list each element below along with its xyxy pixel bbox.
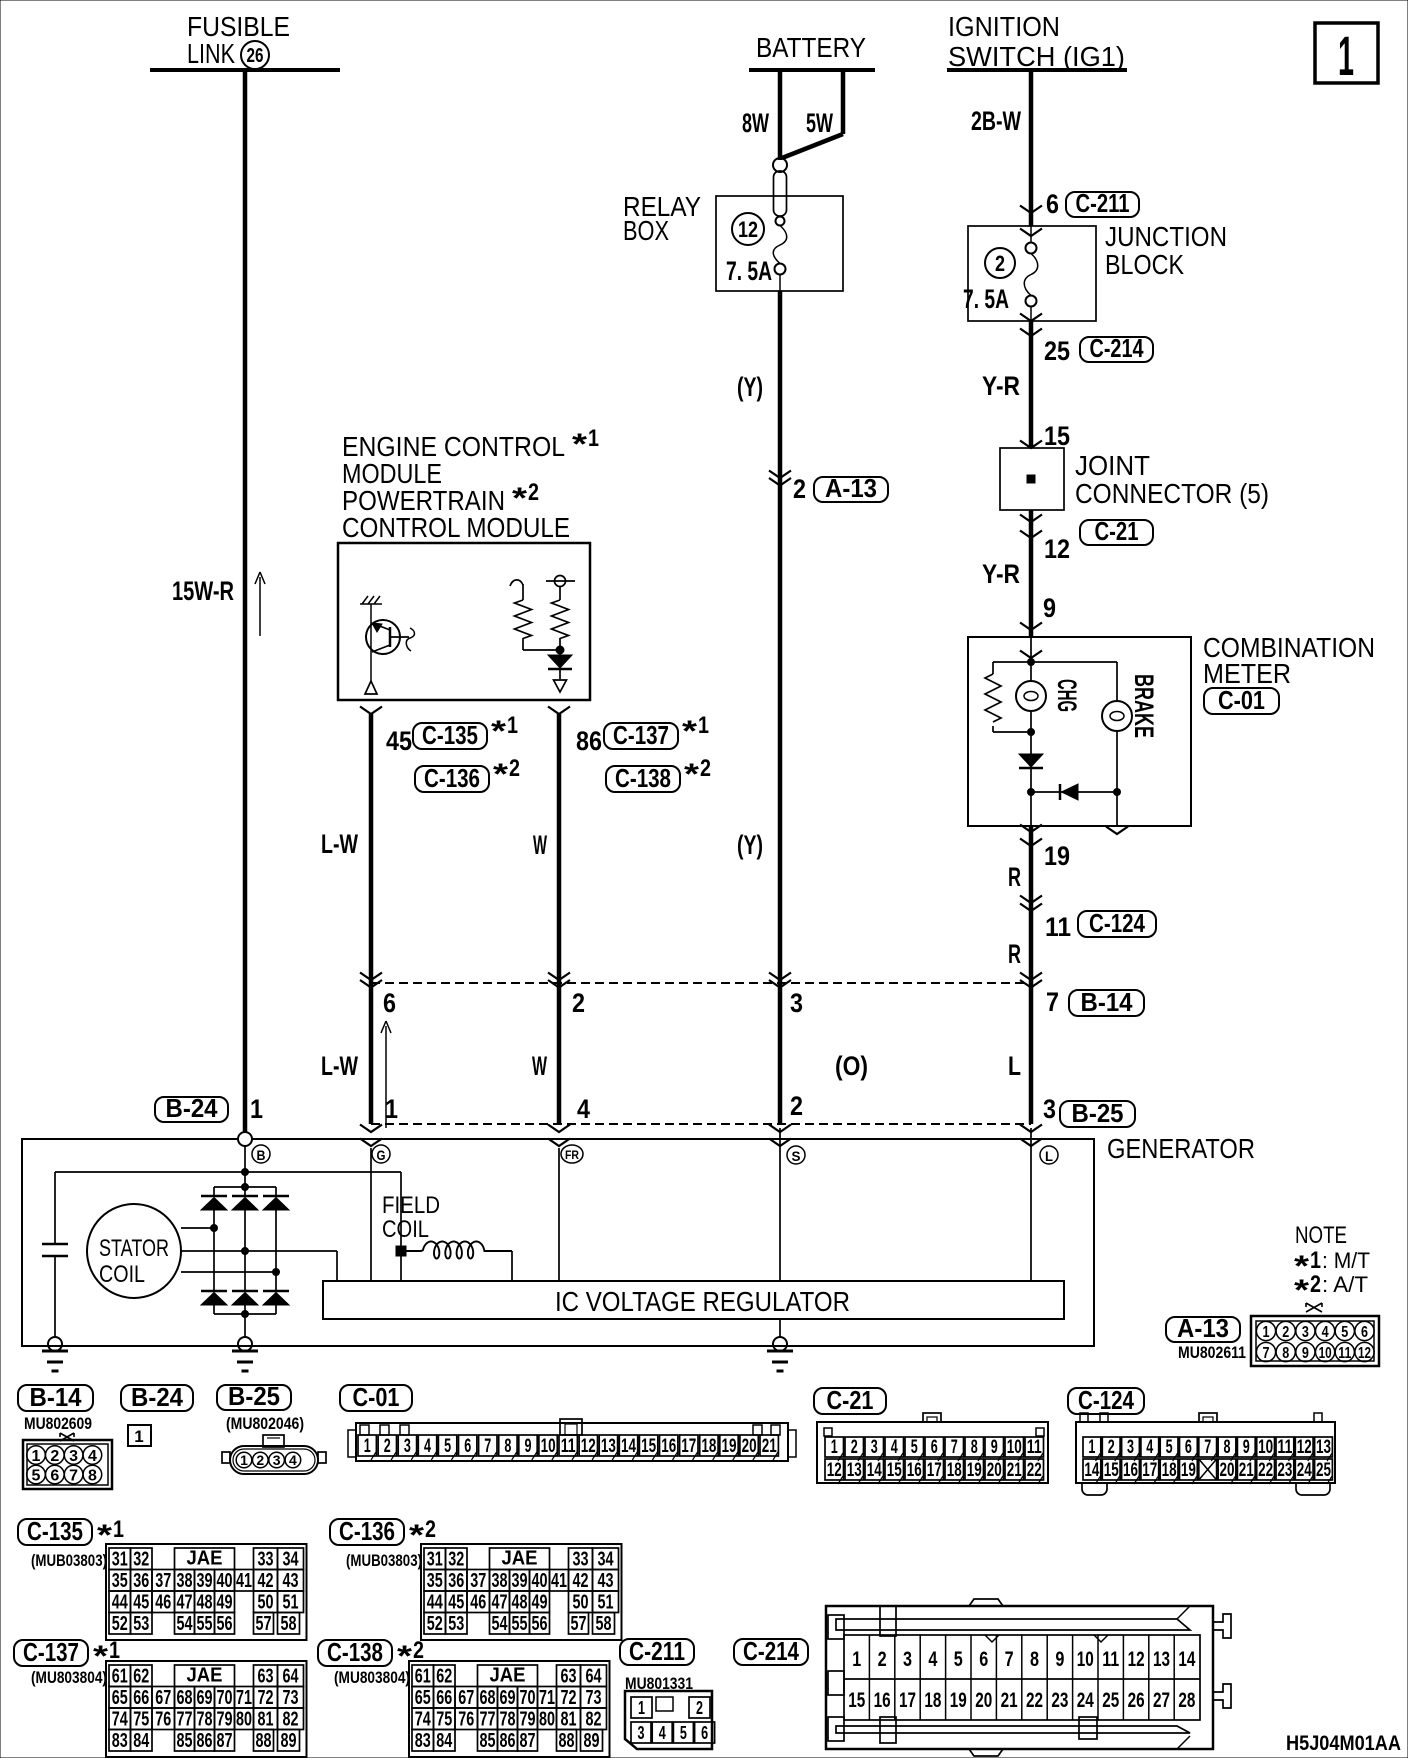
svg-text:6: 6 bbox=[931, 1437, 938, 1458]
svg-text:S: S bbox=[792, 1148, 801, 1164]
node meter lower junction bbox=[1028, 789, 1035, 796]
svg-text:4: 4 bbox=[1146, 1437, 1153, 1458]
svg-text:9: 9 bbox=[525, 1436, 532, 1457]
svg-text:B-25: B-25 bbox=[228, 1381, 280, 1411]
svg-text:39: 39 bbox=[512, 1570, 528, 1592]
svg-text:86: 86 bbox=[500, 1730, 516, 1752]
connector C-124 label bbox=[1068, 1388, 1144, 1414]
svg-text:B-14: B-14 bbox=[30, 1382, 82, 1412]
svg-text:70: 70 bbox=[217, 1687, 233, 1709]
svg-text:JAE: JAE bbox=[187, 1665, 223, 1687]
svg-text:5: 5 bbox=[1341, 1324, 1348, 1341]
svg-text:C-124: C-124 bbox=[1078, 1385, 1134, 1415]
svg-text:6: 6 bbox=[464, 1436, 471, 1457]
svg-text:C-138: C-138 bbox=[615, 763, 671, 793]
svg-text:3: 3 bbox=[1043, 1094, 1056, 1124]
svg-text:64: 64 bbox=[283, 1666, 300, 1688]
wire FR to regulator bbox=[558, 1148, 560, 1281]
svg-text:41: 41 bbox=[551, 1570, 567, 1592]
svg-text:33: 33 bbox=[573, 1549, 589, 1571]
svg-text:57: 57 bbox=[571, 1613, 587, 1635]
ECM pin 45 exit bbox=[360, 707, 382, 715]
connector B-25 pin diagram bbox=[263, 1435, 284, 1447]
relay box outline bbox=[716, 196, 843, 291]
svg-text:14: 14 bbox=[621, 1436, 636, 1457]
wire 2B-W bbox=[1029, 70, 1034, 226]
terminal L entry bbox=[1020, 1125, 1042, 1133]
svg-text:11: 11 bbox=[1027, 1437, 1042, 1458]
svg-text:21: 21 bbox=[1239, 1460, 1254, 1481]
svg-text:8: 8 bbox=[1282, 1345, 1289, 1362]
connector C-138 label bbox=[318, 1640, 392, 1666]
svg-text:87: 87 bbox=[520, 1730, 536, 1752]
ECM box outline bbox=[338, 543, 590, 700]
svg-text:7. 5A: 7. 5A bbox=[963, 284, 1009, 314]
svg-text:17: 17 bbox=[899, 1689, 916, 1712]
svg-text:12: 12 bbox=[738, 217, 758, 242]
svg-text:(Y): (Y) bbox=[737, 830, 763, 860]
svg-text:L-W: L-W bbox=[321, 1051, 358, 1081]
svg-text:10: 10 bbox=[1258, 1437, 1273, 1458]
connector C-136 pin diagram bbox=[421, 1544, 622, 1640]
svg-text:3: 3 bbox=[790, 988, 803, 1018]
svg-text:L: L bbox=[1008, 1051, 1021, 1081]
svg-text:22: 22 bbox=[1027, 1460, 1042, 1481]
svg-text:73: 73 bbox=[283, 1687, 299, 1709]
svg-text:10: 10 bbox=[1007, 1437, 1022, 1458]
svg-text:36: 36 bbox=[133, 1570, 149, 1592]
svg-text:3: 3 bbox=[69, 1448, 78, 1465]
svg-text:85: 85 bbox=[177, 1730, 193, 1752]
svg-text:11: 11 bbox=[561, 1436, 576, 1457]
terminal FR entry bbox=[548, 1125, 570, 1133]
svg-text:: A/T: : A/T bbox=[1322, 1272, 1368, 1297]
diode bridge top-mid bbox=[244, 1187, 246, 1196]
stator phase U bbox=[181, 1227, 214, 1229]
svg-text:C-124: C-124 bbox=[1089, 908, 1145, 938]
connector B-24 label (generator B) bbox=[155, 1097, 228, 1122]
stator coil bbox=[87, 1204, 181, 1298]
svg-text:75: 75 bbox=[436, 1709, 452, 1731]
svg-text:50: 50 bbox=[573, 1592, 589, 1614]
fuse 12 (7.5A) in relay box bbox=[732, 213, 764, 245]
connector 11 (C-124) bbox=[1020, 896, 1042, 904]
stator phase W bbox=[181, 1271, 276, 1273]
svg-text:2: 2 bbox=[878, 1648, 887, 1671]
svg-text:85: 85 bbox=[480, 1730, 496, 1752]
svg-text:6: 6 bbox=[701, 1723, 708, 1743]
svg-text:3: 3 bbox=[273, 1452, 281, 1468]
svg-text:(O): (O) bbox=[835, 1051, 868, 1081]
svg-text:C-137: C-137 bbox=[23, 1637, 79, 1667]
svg-text:22: 22 bbox=[1026, 1689, 1043, 1712]
svg-text:46: 46 bbox=[155, 1592, 171, 1614]
svg-text:3: 3 bbox=[638, 1723, 645, 1743]
svg-text:67: 67 bbox=[458, 1687, 474, 1709]
svg-text:89: 89 bbox=[281, 1730, 297, 1752]
diode bridge bottom-right bbox=[275, 1272, 277, 1291]
svg-text:11: 11 bbox=[1102, 1648, 1119, 1671]
svg-text:7: 7 bbox=[69, 1468, 78, 1485]
svg-text:10: 10 bbox=[541, 1436, 556, 1457]
direction arrow up (15W-R) bbox=[259, 577, 261, 636]
svg-text:FR: FR bbox=[565, 1148, 579, 1162]
svg-text:23: 23 bbox=[1051, 1689, 1068, 1712]
svg-text:1: 1 bbox=[852, 1648, 861, 1671]
svg-text:*: * bbox=[491, 715, 506, 748]
svg-text:42: 42 bbox=[573, 1570, 589, 1592]
meter exit chevrons bbox=[1020, 825, 1042, 833]
svg-text:44: 44 bbox=[427, 1592, 444, 1614]
svg-text:11: 11 bbox=[1277, 1437, 1292, 1458]
svg-text:COIL: COIL bbox=[382, 1216, 429, 1243]
svg-text:19: 19 bbox=[1044, 841, 1070, 871]
svg-text:54: 54 bbox=[177, 1613, 194, 1635]
svg-text:43: 43 bbox=[598, 1570, 614, 1592]
connector C-01 pin diagram bbox=[356, 1423, 788, 1461]
svg-text:C-21: C-21 bbox=[827, 1385, 874, 1415]
svg-text:C-135: C-135 bbox=[27, 1516, 83, 1546]
svg-text:5W: 5W bbox=[806, 108, 833, 138]
svg-text:12: 12 bbox=[581, 1436, 596, 1457]
svg-text:67: 67 bbox=[155, 1687, 171, 1709]
svg-text:79: 79 bbox=[217, 1709, 233, 1731]
svg-text:2: 2 bbox=[995, 251, 1005, 276]
svg-text:13: 13 bbox=[1153, 1648, 1170, 1671]
diode D3 (in ECM) bbox=[559, 650, 561, 655]
svg-text:1: 1 bbox=[831, 1437, 838, 1458]
svg-text:1: 1 bbox=[1338, 24, 1354, 87]
svg-text:4: 4 bbox=[1322, 1324, 1329, 1341]
combination meter outline bbox=[968, 637, 1191, 826]
svg-text:1: 1 bbox=[1310, 1247, 1321, 1274]
svg-text:75: 75 bbox=[133, 1709, 149, 1731]
svg-text:17: 17 bbox=[1142, 1460, 1157, 1481]
connector B-25 label bbox=[217, 1385, 291, 1410]
svg-text:53: 53 bbox=[448, 1613, 464, 1635]
svg-text:17: 17 bbox=[927, 1460, 942, 1481]
svg-text:12: 12 bbox=[1297, 1437, 1312, 1458]
svg-text:27: 27 bbox=[1153, 1689, 1170, 1712]
wire L (C-124 to generator L) bbox=[1029, 983, 1034, 1124]
svg-text:12: 12 bbox=[827, 1460, 842, 1481]
svg-text:2: 2 bbox=[696, 1698, 703, 1718]
svg-text:28: 28 bbox=[1178, 1689, 1195, 1712]
fusible link source bar bbox=[150, 68, 340, 72]
svg-text:B-24: B-24 bbox=[166, 1093, 218, 1123]
svg-text:MU802611: MU802611 bbox=[1178, 1343, 1246, 1362]
svg-text:1: 1 bbox=[250, 1094, 263, 1124]
svg-text:11: 11 bbox=[1338, 1345, 1351, 1362]
svg-text:45: 45 bbox=[386, 726, 412, 756]
svg-text:5: 5 bbox=[1166, 1437, 1173, 1458]
svg-text:B: B bbox=[257, 1147, 266, 1163]
svg-text:BRAKE: BRAKE bbox=[1129, 674, 1159, 738]
svg-text:1: 1 bbox=[240, 1452, 248, 1468]
connector B-24 label bbox=[121, 1385, 193, 1411]
svg-text:53: 53 bbox=[133, 1613, 149, 1635]
terminal S entry bbox=[769, 1125, 791, 1133]
svg-text:55: 55 bbox=[197, 1613, 213, 1635]
connector C-21 label bbox=[814, 1388, 886, 1414]
svg-text:BATTERY: BATTERY bbox=[756, 32, 866, 63]
svg-text:44: 44 bbox=[112, 1592, 129, 1614]
svg-text:2: 2 bbox=[528, 479, 539, 506]
svg-text:15: 15 bbox=[1044, 421, 1070, 451]
svg-text:*: * bbox=[409, 1519, 424, 1552]
svg-text:*: * bbox=[682, 715, 697, 748]
svg-text:(MU802046): (MU802046) bbox=[226, 1414, 304, 1433]
svg-text:7: 7 bbox=[1046, 987, 1059, 1017]
svg-text:16: 16 bbox=[1123, 1460, 1138, 1481]
svg-text:L-W: L-W bbox=[321, 829, 358, 859]
svg-text:R: R bbox=[1008, 862, 1021, 892]
svg-text:H5J04M01AA: H5J04M01AA bbox=[1286, 1732, 1401, 1755]
svg-text:JUNCTION: JUNCTION bbox=[1105, 221, 1227, 252]
svg-text:15: 15 bbox=[641, 1436, 656, 1457]
svg-text:1: 1 bbox=[134, 1427, 143, 1446]
svg-text:15: 15 bbox=[1104, 1460, 1119, 1481]
svg-text:55: 55 bbox=[512, 1613, 528, 1635]
svg-text:25: 25 bbox=[1044, 336, 1070, 366]
svg-text:FIELD: FIELD bbox=[382, 1192, 440, 1219]
svg-text:6: 6 bbox=[50, 1468, 59, 1485]
svg-text:G: G bbox=[377, 1147, 386, 1163]
svg-text:24: 24 bbox=[1297, 1460, 1312, 1481]
svg-text:2: 2 bbox=[1282, 1324, 1289, 1341]
svg-text:*: * bbox=[493, 758, 508, 791]
svg-text:3: 3 bbox=[1302, 1324, 1309, 1341]
svg-text:88: 88 bbox=[559, 1730, 575, 1752]
ground (regulator) bbox=[773, 1337, 787, 1351]
svg-text:15W-R: 15W-R bbox=[172, 576, 234, 606]
svg-text:6: 6 bbox=[1185, 1437, 1192, 1458]
svg-text:38: 38 bbox=[492, 1570, 508, 1592]
connector C-214 label bbox=[734, 1639, 808, 1665]
connector 2 (A-13) pass-through bbox=[769, 471, 791, 479]
connector C-21 pin diagram bbox=[817, 1422, 1048, 1483]
svg-text:80: 80 bbox=[236, 1709, 252, 1731]
svg-text:52: 52 bbox=[112, 1613, 128, 1635]
svg-text:1: 1 bbox=[109, 1637, 120, 1664]
svg-text:2: 2 bbox=[1108, 1437, 1115, 1458]
svg-text:1: 1 bbox=[638, 1698, 645, 1718]
svg-text:45: 45 bbox=[448, 1592, 464, 1614]
svg-text:76: 76 bbox=[458, 1709, 474, 1731]
connector B-14 pin diagram bbox=[60, 1433, 74, 1441]
svg-text:JAE: JAE bbox=[490, 1665, 526, 1687]
svg-text:51: 51 bbox=[283, 1592, 299, 1614]
svg-text:19: 19 bbox=[722, 1436, 737, 1457]
wire S to regulator bbox=[779, 1128, 781, 1281]
svg-text:Y-R: Y-R bbox=[982, 559, 1020, 589]
junction block outline bbox=[968, 226, 1096, 321]
svg-text:18: 18 bbox=[701, 1436, 716, 1457]
svg-text:20: 20 bbox=[1220, 1460, 1235, 1481]
svg-text:4: 4 bbox=[659, 1723, 666, 1743]
diode bridge top-left bbox=[213, 1187, 215, 1196]
svg-text:20: 20 bbox=[987, 1460, 1002, 1481]
svg-text:MU802609: MU802609 bbox=[24, 1414, 92, 1433]
svg-text:1: 1 bbox=[1088, 1437, 1095, 1458]
svg-text:5: 5 bbox=[32, 1468, 41, 1485]
svg-text:COIL: COIL bbox=[99, 1261, 145, 1288]
svg-text:62: 62 bbox=[436, 1666, 452, 1688]
svg-text:50: 50 bbox=[258, 1592, 274, 1614]
svg-text:B-14: B-14 bbox=[1081, 987, 1133, 1017]
fusible link element (battery feed) bbox=[773, 158, 787, 172]
svg-text:STATOR: STATOR bbox=[99, 1235, 169, 1262]
connector C-136 label bbox=[330, 1519, 404, 1545]
svg-text:*: * bbox=[97, 1519, 112, 1552]
ignition source bar bbox=[947, 68, 1127, 72]
svg-text:(MUB03803): (MUB03803) bbox=[31, 1551, 107, 1570]
svg-text:58: 58 bbox=[281, 1613, 297, 1635]
svg-text:JAE: JAE bbox=[187, 1548, 223, 1570]
svg-text:20: 20 bbox=[742, 1436, 757, 1457]
svg-text:31: 31 bbox=[112, 1549, 128, 1571]
svg-text:82: 82 bbox=[283, 1709, 299, 1731]
svg-text:36: 36 bbox=[448, 1570, 464, 1592]
svg-text:10: 10 bbox=[1077, 1648, 1094, 1671]
svg-text:56: 56 bbox=[532, 1613, 548, 1635]
svg-text:61: 61 bbox=[415, 1666, 431, 1688]
svg-text:84: 84 bbox=[436, 1730, 453, 1752]
resistor R2 (in ECM) bbox=[546, 580, 575, 582]
svg-text:32: 32 bbox=[133, 1549, 149, 1571]
diode D1 (down) bbox=[1019, 754, 1043, 767]
svg-text:13: 13 bbox=[601, 1436, 616, 1457]
svg-text:63: 63 bbox=[258, 1666, 274, 1688]
svg-text:A-13: A-13 bbox=[1177, 1313, 1229, 1343]
svg-text:1: 1 bbox=[507, 712, 518, 739]
svg-text:21: 21 bbox=[1001, 1689, 1018, 1712]
svg-text:1: 1 bbox=[385, 1094, 398, 1124]
node below CHG bbox=[1028, 729, 1035, 736]
svg-text:12: 12 bbox=[1044, 534, 1070, 564]
svg-text:48: 48 bbox=[197, 1592, 213, 1614]
svg-text:5: 5 bbox=[954, 1648, 963, 1671]
svg-text:34: 34 bbox=[283, 1549, 300, 1571]
svg-text:21: 21 bbox=[762, 1436, 777, 1457]
wire bridge to ground bbox=[244, 1314, 246, 1337]
svg-text:31: 31 bbox=[427, 1549, 443, 1571]
svg-text:9: 9 bbox=[1243, 1437, 1250, 1458]
svg-text:C-136: C-136 bbox=[424, 763, 480, 793]
svg-text:35: 35 bbox=[112, 1570, 128, 1592]
svg-text:BOX: BOX bbox=[623, 215, 669, 246]
joint connector pin 12 bbox=[1020, 515, 1042, 523]
svg-text:5: 5 bbox=[444, 1436, 451, 1457]
svg-text:12: 12 bbox=[1358, 1345, 1371, 1362]
svg-text:40: 40 bbox=[532, 1570, 548, 1592]
svg-text:2: 2 bbox=[1310, 1271, 1321, 1298]
svg-text:74: 74 bbox=[415, 1709, 432, 1731]
svg-text:26: 26 bbox=[1128, 1689, 1145, 1712]
svg-text:24: 24 bbox=[1077, 1689, 1094, 1712]
generator outline bbox=[22, 1139, 1094, 1346]
svg-text:LINK: LINK bbox=[187, 38, 235, 69]
connector C-135 label bbox=[18, 1519, 92, 1545]
svg-text:C-136: C-136 bbox=[339, 1516, 395, 1546]
svg-text:C-135: C-135 bbox=[422, 720, 478, 750]
ECM pin 86 exit bbox=[548, 707, 570, 715]
transistor Q1 (in ECM) bbox=[360, 596, 382, 604]
svg-text:2: 2 bbox=[790, 1091, 803, 1121]
svg-text:38: 38 bbox=[177, 1570, 193, 1592]
svg-text:77: 77 bbox=[177, 1709, 193, 1731]
svg-text:15: 15 bbox=[887, 1460, 902, 1481]
wire Y-R lower bbox=[1029, 510, 1034, 637]
svg-text:7: 7 bbox=[1263, 1345, 1270, 1362]
svg-text:2B-W: 2B-W bbox=[971, 106, 1021, 136]
svg-text:8: 8 bbox=[504, 1436, 511, 1457]
direction arrow up (L-W) bbox=[385, 1026, 387, 1128]
svg-text:51: 51 bbox=[598, 1592, 614, 1614]
svg-text:25: 25 bbox=[1102, 1689, 1119, 1712]
svg-text:78: 78 bbox=[197, 1709, 213, 1731]
wire G to regulator bbox=[370, 1148, 372, 1281]
svg-text:16: 16 bbox=[907, 1460, 922, 1481]
regulator ground stub bbox=[779, 1319, 781, 1337]
svg-text:16: 16 bbox=[661, 1436, 676, 1457]
svg-text:9: 9 bbox=[1055, 1648, 1064, 1671]
svg-text:33: 33 bbox=[258, 1549, 274, 1571]
svg-text:4: 4 bbox=[88, 1448, 97, 1465]
svg-text:8: 8 bbox=[1224, 1437, 1231, 1458]
svg-text:37: 37 bbox=[155, 1570, 171, 1592]
svg-text:7. 5A: 7. 5A bbox=[726, 256, 772, 286]
svg-text:82: 82 bbox=[586, 1709, 602, 1731]
svg-text:6: 6 bbox=[1361, 1324, 1368, 1341]
svg-text:CHG: CHG bbox=[1052, 679, 1082, 712]
svg-text:23: 23 bbox=[1277, 1460, 1292, 1481]
meter internal entry bbox=[1020, 651, 1042, 659]
svg-text:*: * bbox=[512, 482, 527, 515]
svg-text:20: 20 bbox=[975, 1689, 992, 1712]
svg-text:47: 47 bbox=[177, 1592, 193, 1614]
svg-text:52: 52 bbox=[427, 1613, 443, 1635]
svg-text:66: 66 bbox=[133, 1687, 149, 1709]
svg-text:BLOCK: BLOCK bbox=[1105, 249, 1184, 280]
connector C-211 label bbox=[620, 1639, 694, 1665]
terminal G entry bbox=[360, 1125, 382, 1133]
svg-text:: M/T: : M/T bbox=[1322, 1248, 1370, 1273]
svg-text:7: 7 bbox=[484, 1436, 491, 1457]
svg-text:47: 47 bbox=[492, 1592, 508, 1614]
svg-text:18: 18 bbox=[924, 1689, 941, 1712]
svg-text:C-138: C-138 bbox=[327, 1637, 383, 1667]
svg-text:70: 70 bbox=[520, 1687, 536, 1709]
svg-text:C-211: C-211 bbox=[629, 1636, 685, 1666]
svg-text:81: 81 bbox=[258, 1709, 274, 1731]
svg-text:1: 1 bbox=[698, 712, 709, 739]
wire (Y) battery to generator S bbox=[779, 274, 781, 291]
svg-text:49: 49 bbox=[217, 1592, 233, 1614]
svg-text:NOTE: NOTE bbox=[1295, 1222, 1347, 1249]
svg-text:(MU803804): (MU803804) bbox=[334, 1668, 410, 1687]
svg-text:40: 40 bbox=[217, 1570, 233, 1592]
svg-text:8: 8 bbox=[1030, 1648, 1039, 1671]
svg-text:45: 45 bbox=[133, 1592, 149, 1614]
svg-text:19: 19 bbox=[950, 1689, 967, 1712]
svg-text:71: 71 bbox=[539, 1687, 555, 1709]
svg-text:2: 2 bbox=[384, 1436, 391, 1457]
svg-text:87: 87 bbox=[217, 1730, 233, 1752]
B+ internal rail bbox=[55, 1171, 401, 1173]
svg-text:26: 26 bbox=[247, 45, 264, 67]
svg-text:72: 72 bbox=[561, 1687, 577, 1709]
